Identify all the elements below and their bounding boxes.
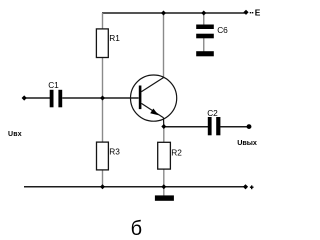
svg-text:Uвх: Uвх	[8, 131, 22, 138]
svg-text:C1: C1	[48, 80, 59, 90]
svg-text:R1: R1	[109, 33, 120, 43]
svg-text:R2: R2	[171, 147, 182, 157]
svg-text:C6: C6	[217, 25, 228, 35]
svg-text:б: б	[131, 218, 142, 240]
svg-text:Uвых: Uвых	[237, 138, 257, 147]
svg-text:E: E	[255, 7, 261, 17]
svg-text:C2: C2	[207, 108, 218, 118]
svg-text:R3: R3	[109, 146, 120, 156]
